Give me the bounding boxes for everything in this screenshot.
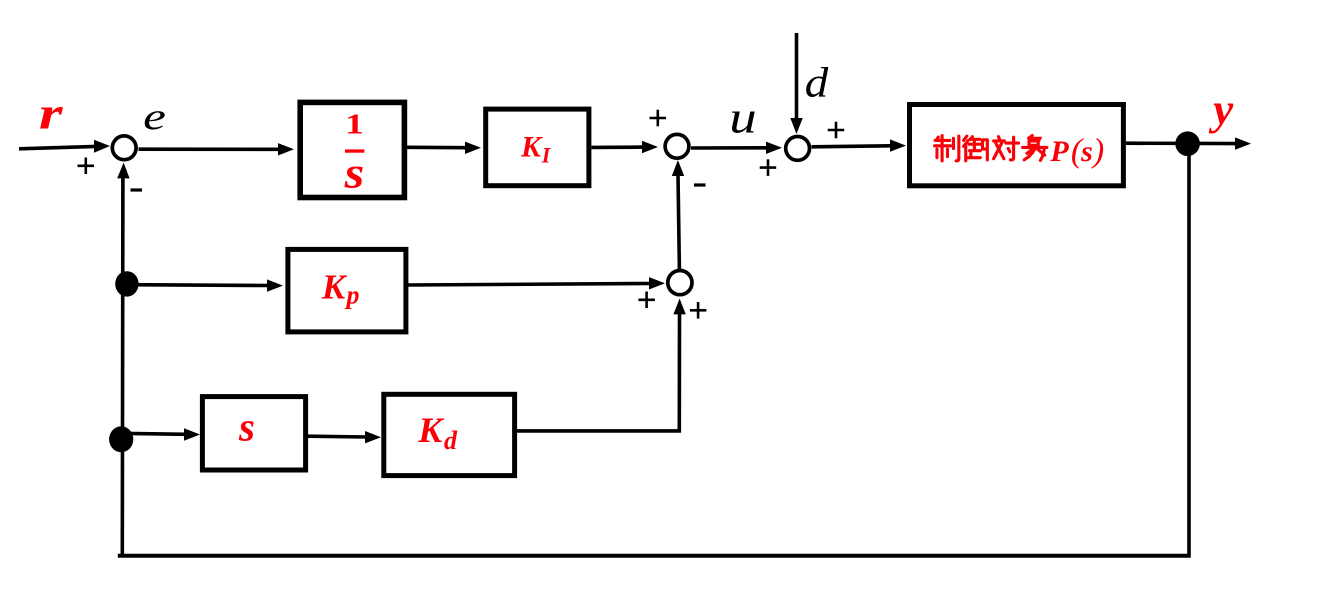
block s (derivative) <box>202 397 305 470</box>
block KI <box>486 109 589 186</box>
label K_d <box>417 410 458 455</box>
wire: Kd right then up into S4 <box>517 299 686 431</box>
svg-text:d: d <box>805 59 829 106</box>
svg-text:K: K <box>321 268 348 307</box>
wire: KI to summing junction S2 <box>592 141 659 153</box>
label - below right of S2 <box>694 183 706 186</box>
wire: S4 up into S2 <box>672 160 684 270</box>
block 1/s integrator <box>300 102 404 197</box>
label + right of S4 <box>690 302 707 319</box>
block plant P(s) <box>910 105 1124 186</box>
wire: disturbance d arrow down into S3 <box>790 33 802 134</box>
kanji 御 <box>964 136 988 161</box>
svg-text:K: K <box>520 130 543 163</box>
node: output takeoff dot <box>1175 131 1200 156</box>
summing junction S4 <box>668 271 692 295</box>
svg-text:): ) <box>1091 133 1104 170</box>
wire: S2 to summing junction S3 <box>691 142 782 154</box>
svg-text:d: d <box>444 426 458 455</box>
summing junction S3 <box>786 137 810 161</box>
svg-text:K: K <box>417 410 445 450</box>
label 1/s fraction <box>344 108 365 197</box>
node: takeoff dot to Kp <box>115 271 138 296</box>
label K_I <box>520 130 552 167</box>
label - below S1 <box>131 188 143 191</box>
wire: feedback bottom run <box>118 554 1191 558</box>
label + above S2 <box>650 110 667 127</box>
wire: S1 to integrator block <box>139 143 295 155</box>
wire: feedback up left side into S1 <box>117 163 129 558</box>
svg-text:s: s <box>1080 135 1093 168</box>
svg-text:1: 1 <box>345 108 364 140</box>
wire: plant to output y with takeoff node <box>1126 137 1251 149</box>
svg-text:P: P <box>1049 135 1069 168</box>
svg-text:u: u <box>729 92 756 142</box>
label + right of S3 <box>828 122 845 139</box>
node: takeoff dot to s block <box>109 426 133 452</box>
label P(s) <box>1049 133 1104 170</box>
label + at S1 input <box>78 158 95 175</box>
wire: integrator to KI block <box>407 142 481 154</box>
label + below left of S3 <box>760 159 777 176</box>
svg-text:s: s <box>238 404 255 450</box>
svg-text:p: p <box>345 281 360 310</box>
svg-text:s: s <box>344 149 365 197</box>
wire: S3 to plant block <box>812 139 907 151</box>
wire: node to s block <box>121 428 200 440</box>
label 制御対象P(s) drawn as strokes <box>935 136 1047 161</box>
wire: Kp to summing junction S4 <box>406 277 665 289</box>
svg-text:I: I <box>541 142 552 167</box>
label K_p <box>321 268 360 310</box>
block Kp <box>288 249 406 332</box>
svg-text:r: r <box>39 87 64 138</box>
wire: feedback down right side <box>1187 144 1191 554</box>
svg-text:e: e <box>143 95 166 137</box>
wire: input r arrow into summing junction S1 <box>19 140 110 153</box>
kanji 象 <box>1023 136 1047 161</box>
summing junction S1 <box>112 136 136 160</box>
label + left of S4 <box>638 292 655 309</box>
wire: node to Kp block <box>127 279 283 291</box>
summing junction S2 <box>665 134 689 158</box>
kanji 制 <box>935 136 959 161</box>
wire: s block to Kd block <box>308 431 381 443</box>
block Kd <box>384 394 515 475</box>
kanji 対 <box>994 137 1019 160</box>
